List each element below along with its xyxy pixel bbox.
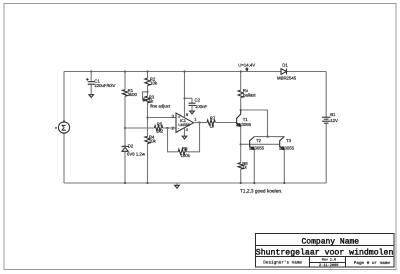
svg-text:Designer's name: Designer's name <box>263 259 302 265</box>
resistor R2 <box>145 76 158 85</box>
node pin8 / C2 branch <box>183 97 185 99</box>
node top rail / C1 <box>90 70 92 72</box>
node T1 collector <box>240 109 242 111</box>
node top rail / R1 <box>124 70 126 72</box>
svg-text:D2: D2 <box>128 144 134 149</box>
svg-text:2N3055: 2N3055 <box>249 145 265 150</box>
transistor T1 <box>236 110 252 127</box>
wire Rv column top <box>240 72 242 91</box>
svg-text:U=14,4V: U=14,4V <box>238 63 255 68</box>
resistor R5 <box>154 121 163 133</box>
transistor T3 <box>279 137 295 151</box>
sheet title text <box>256 249 394 258</box>
wire op-amp pin4 <box>184 128 186 137</box>
svg-text:10k: 10k <box>149 139 157 144</box>
zener diode D2 <box>122 144 146 157</box>
svg-text:2-11-2008: 2-11-2008 <box>319 263 338 268</box>
wire C2 branch <box>185 98 193 103</box>
svg-text:T2: T2 <box>256 138 262 143</box>
resistor R6 <box>178 146 191 158</box>
transistor T2 <box>249 137 265 151</box>
svg-text:Company Name: Company Name <box>302 238 360 247</box>
svg-text:12V: 12V <box>330 118 338 123</box>
wire op-amp pin8 supply <box>184 72 186 118</box>
node R5 / zener column <box>124 127 126 129</box>
svg-text:fine adjust: fine adjust <box>150 104 170 109</box>
diode D1 <box>277 63 297 81</box>
svg-text:R7: R7 <box>210 116 216 121</box>
svg-text:100nF: 100nF <box>195 104 208 109</box>
svg-text:10k: 10k <box>150 81 158 86</box>
svg-text:B1: B1 <box>330 112 336 117</box>
op-amp IC1 <box>172 112 198 132</box>
wire battery column top <box>325 72 327 118</box>
wire top rail left segment <box>64 71 281 73</box>
label U=14,4V with arrow <box>238 63 255 71</box>
svg-text:100k: 100k <box>181 153 191 158</box>
svg-text:C2: C2 <box>195 98 201 103</box>
wire base bus <box>241 143 280 145</box>
battery B1 <box>322 112 338 123</box>
svg-text:LM358: LM358 <box>178 123 189 127</box>
wire collector feed horizontal <box>241 110 268 137</box>
node top rail / Rv <box>240 70 242 72</box>
node collector bus feed <box>266 136 268 138</box>
page cell text <box>354 261 391 266</box>
node R8 bottom rail <box>240 182 242 184</box>
svg-text:MBR2545: MBR2545 <box>277 76 297 81</box>
svg-text:Shuntregelaar voor windmolen: Shuntregelaar voor windmolen <box>256 249 394 258</box>
node base bus <box>240 143 242 145</box>
wire to op-amp noninverting input <box>148 117 177 119</box>
resistor R1 <box>122 88 137 97</box>
node R4 bottom rail <box>146 182 148 184</box>
capacitor C1 <box>86 78 115 88</box>
wire R8 to bottom rail <box>240 169 242 183</box>
wire T3 emitter <box>283 150 285 183</box>
svg-text:T3: T3 <box>286 138 292 143</box>
svg-text:R5: R5 <box>157 121 163 126</box>
node inverting input / feedback <box>166 127 168 129</box>
company name text <box>302 238 360 247</box>
svg-text:Page # or name: Page # or name <box>354 261 391 266</box>
node R3/R4 to op-amp <box>146 116 148 118</box>
designer cell text <box>263 259 302 265</box>
node zener column bottom rail <box>124 182 126 184</box>
svg-text:6V8 1.2w: 6V8 1.2w <box>127 152 146 157</box>
note T1,2,3 goed koelen <box>240 189 282 195</box>
wire T2 emitter <box>253 150 255 183</box>
wire R7 to T1 base <box>216 122 237 124</box>
node top rail / pin8 <box>183 70 185 72</box>
svg-text:2N3055: 2N3055 <box>279 145 295 150</box>
capacitor C2 <box>189 98 208 110</box>
node T3 emitter bottom rail <box>283 182 285 184</box>
svg-text:Σ: Σ <box>61 124 66 133</box>
ground under C2 <box>190 111 195 114</box>
svg-text:3k00: 3k00 <box>128 92 138 97</box>
wire C1 stem <box>90 72 92 82</box>
wire R5 right to op-amp inverting input <box>163 127 176 129</box>
svg-text:Rev 1.0: Rev 1.0 <box>322 258 336 263</box>
ground on bottom rail <box>175 183 180 188</box>
svg-text:*: * <box>55 126 57 132</box>
svg-text:T1,2,3 goed koelen.: T1,2,3 goed koelen. <box>240 189 282 195</box>
wire feedback up to output <box>186 123 199 152</box>
wire C1 to ground <box>90 84 92 95</box>
ground under C1 <box>89 95 94 98</box>
svg-text:220uF/63V: 220uF/63V <box>94 83 115 88</box>
title block box <box>256 234 395 267</box>
wire C2 to ground <box>191 105 193 111</box>
node output / feedback <box>198 121 200 123</box>
rev cell text <box>322 258 336 263</box>
trimmer R3 <box>143 91 171 109</box>
resistor R7 <box>207 116 216 129</box>
ground under op-amp pin4 <box>182 136 187 139</box>
wire top rail right segment <box>287 71 327 73</box>
wire op-amp output <box>194 122 208 124</box>
svg-text:2N3055: 2N3055 <box>236 122 252 127</box>
wire battery column bottom <box>325 123 327 183</box>
wire left column upper <box>63 72 65 122</box>
svg-text:ballast: ballast <box>243 93 256 98</box>
svg-text:R6: R6 <box>182 146 188 151</box>
date cell text <box>319 263 338 268</box>
wire R5 left <box>125 127 154 129</box>
generator G1 <box>55 120 70 133</box>
svg-text:2k2: 2k2 <box>156 129 164 134</box>
wire left column lower <box>63 133 65 183</box>
resistor Rv ballast <box>238 88 256 97</box>
node top rail / R2 <box>146 70 148 72</box>
resistor R8 <box>238 161 248 170</box>
wire T1 emitter down <box>240 126 242 162</box>
wire feedback down from inverting node <box>168 128 179 152</box>
wire bottom rail <box>64 182 326 184</box>
wire collector bus <box>254 136 284 138</box>
wire Rv to collector node <box>240 98 242 111</box>
node T2 emitter bottom rail <box>253 182 255 184</box>
resistor R4 <box>145 135 157 144</box>
svg-text:D1: D1 <box>282 63 288 68</box>
wire R2 column <box>147 72 149 184</box>
wire R1 column <box>124 72 126 184</box>
